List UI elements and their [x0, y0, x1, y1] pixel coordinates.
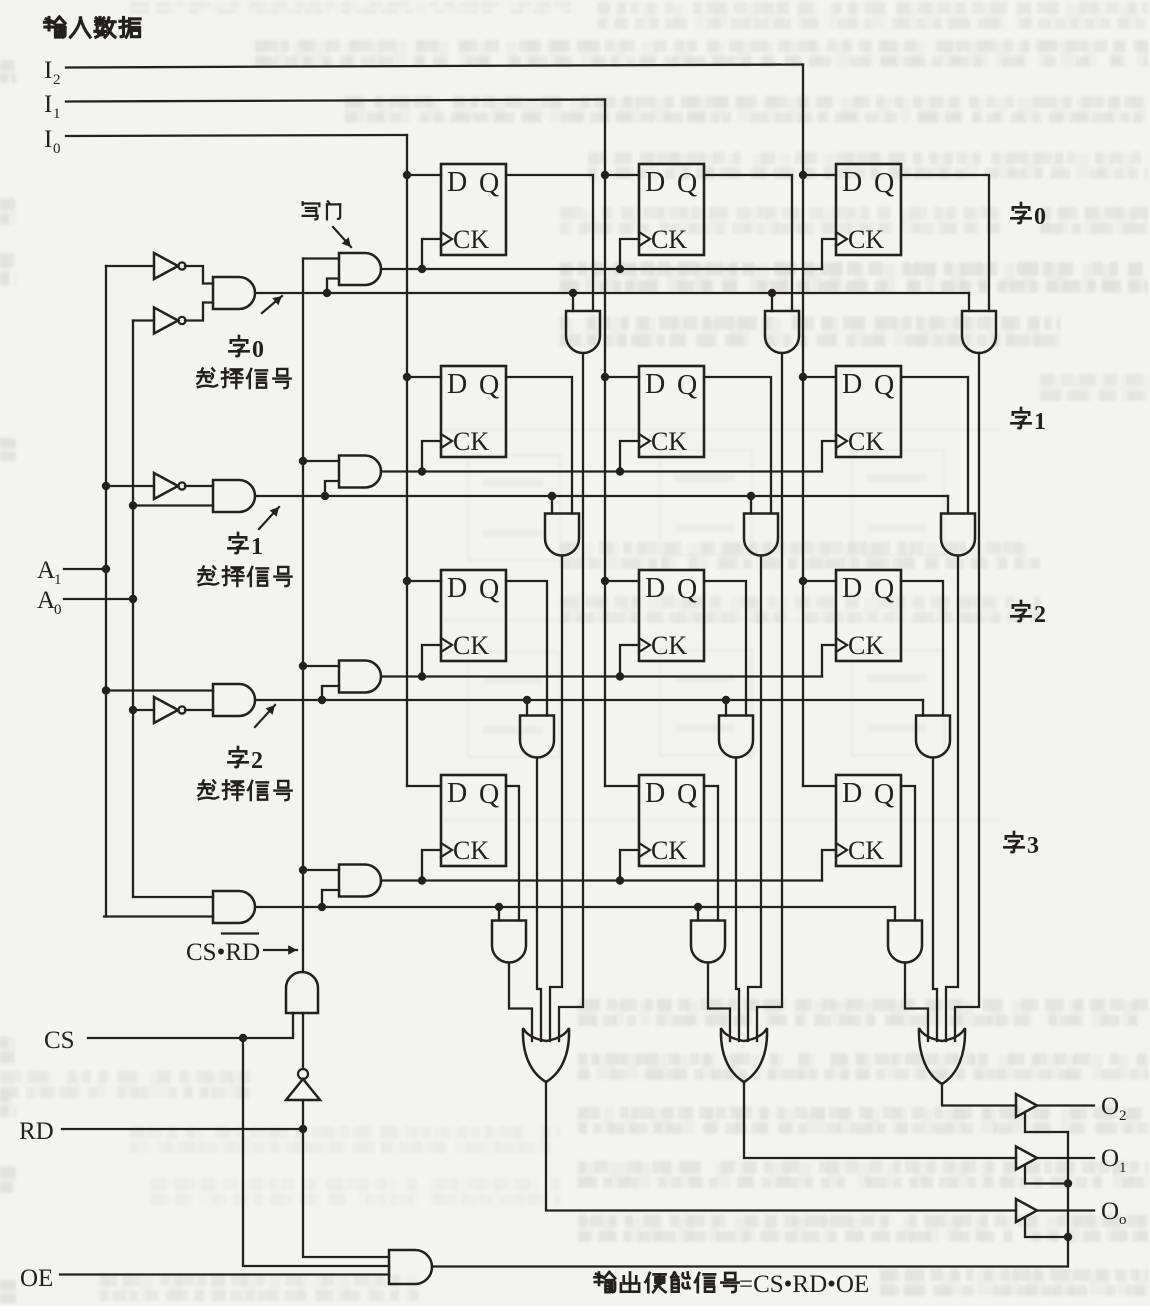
svg-text:I: I — [44, 126, 52, 153]
svg-text:Q: Q — [479, 779, 499, 810]
svg-text:CS•RD: CS•RD — [186, 939, 260, 966]
svg-text:CK: CK — [848, 225, 884, 254]
svg-text:1: 1 — [251, 534, 263, 560]
svg-text:0: 0 — [252, 337, 264, 363]
svg-text:OE: OE — [20, 1265, 53, 1292]
svg-text:Q: Q — [677, 779, 697, 810]
svg-text:CS: CS — [44, 1027, 75, 1054]
svg-text:2: 2 — [251, 748, 263, 774]
svg-text:D: D — [645, 369, 665, 400]
svg-text:1: 1 — [53, 106, 61, 122]
svg-text:0: 0 — [1034, 204, 1046, 230]
svg-text:CK: CK — [453, 225, 489, 254]
svg-text:D: D — [842, 778, 862, 809]
svg-text:D: D — [645, 167, 665, 198]
svg-text:Q: Q — [677, 574, 697, 605]
svg-text:A: A — [37, 557, 55, 584]
svg-text:D: D — [447, 369, 467, 400]
svg-text:D: D — [645, 573, 665, 604]
svg-text:O: O — [1101, 1093, 1119, 1120]
svg-text:Q: Q — [479, 574, 499, 605]
svg-text:1: 1 — [1119, 1160, 1127, 1176]
svg-text:CK: CK — [651, 631, 687, 660]
svg-text:CK: CK — [453, 631, 489, 660]
svg-text:I: I — [44, 57, 52, 84]
svg-text:CK: CK — [848, 631, 884, 660]
svg-text:Q: Q — [874, 168, 894, 199]
svg-text:Q: Q — [479, 168, 499, 199]
svg-text:CK: CK — [848, 427, 884, 456]
svg-text:0: 0 — [54, 602, 62, 618]
svg-text:=CS•RD•OE: =CS•RD•OE — [739, 1271, 869, 1298]
svg-text:Q: Q — [677, 370, 697, 401]
svg-text:RD: RD — [19, 1118, 54, 1145]
svg-text:1: 1 — [1034, 409, 1046, 435]
svg-text:CK: CK — [453, 427, 489, 456]
svg-text:1: 1 — [54, 572, 62, 588]
svg-text:CK: CK — [651, 225, 687, 254]
svg-text:2: 2 — [53, 72, 61, 88]
svg-text:D: D — [447, 778, 467, 809]
svg-text:3: 3 — [1027, 833, 1039, 859]
svg-text:Q: Q — [874, 370, 894, 401]
svg-text:0: 0 — [53, 141, 61, 157]
svg-text:Q: Q — [874, 574, 894, 605]
svg-text:O: O — [1101, 1145, 1119, 1172]
svg-text:Q: Q — [874, 779, 894, 810]
svg-text:Q: Q — [479, 370, 499, 401]
svg-text:D: D — [447, 573, 467, 604]
svg-text:D: D — [447, 167, 467, 198]
svg-text:D: D — [842, 369, 862, 400]
svg-text:CK: CK — [848, 836, 884, 865]
svg-text:A: A — [37, 587, 55, 614]
svg-text:D: D — [645, 778, 665, 809]
svg-text:CK: CK — [453, 836, 489, 865]
svg-text:2: 2 — [1119, 1108, 1127, 1124]
svg-text:O: O — [1101, 1198, 1119, 1225]
svg-text:CK: CK — [651, 836, 687, 865]
svg-text:CK: CK — [651, 427, 687, 456]
svg-text:o: o — [1119, 1212, 1127, 1228]
svg-text:2: 2 — [1034, 602, 1046, 628]
svg-text:I: I — [44, 91, 52, 118]
svg-text:D: D — [842, 167, 862, 198]
svg-text:Q: Q — [677, 168, 697, 199]
svg-text:D: D — [842, 573, 862, 604]
